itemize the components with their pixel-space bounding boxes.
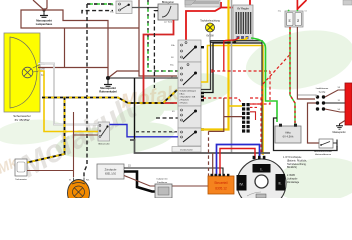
svg-text:Schalterstellungen: Schalterstellungen bbox=[180, 90, 196, 93]
svg-text:Zündschalter: Zündschalter bbox=[180, 149, 193, 152]
regulator 6V Regler bbox=[233, 5, 253, 40]
svg-text:2. BWR: 2. BWR bbox=[287, 175, 295, 177]
svg-text:6V Regler: 6V Regler bbox=[237, 7, 249, 11]
wire red flasher feed bbox=[144, 20, 178, 103]
wire red main feed top bbox=[186, 0, 250, 40]
ground Massepunkt taillight bbox=[333, 121, 346, 135]
svg-text:8305.12: 8305.12 bbox=[215, 187, 227, 191]
ignition coil Zündspule bbox=[97, 164, 131, 179]
wire brown connector left bbox=[209, 98, 224, 131]
svg-text:(Batterie, Rücklicht,: (Batterie, Rücklicht, bbox=[287, 159, 307, 162]
wire brown coil ground bbox=[124, 176, 208, 187]
wire yellow trunk bbox=[201, 0, 229, 130]
svg-text:Blinklicht): Blinklicht) bbox=[287, 166, 297, 169]
wire black thick HT lead bbox=[124, 172, 156, 192]
svg-text:Isolator mit: Isolator mit bbox=[157, 178, 168, 181]
wire brown stub from top bbox=[44, 0, 47, 10]
svg-text:Ladeklemme: Ladeklemme bbox=[316, 88, 329, 90]
wire gray ground to magneto bbox=[130, 140, 270, 153]
svg-text:Rahmenkabel: Rahmenkabel bbox=[99, 90, 117, 94]
wire brown connector feed bbox=[224, 116, 242, 118]
wire brown ground loop left bbox=[21, 10, 139, 28]
wire brown branch node2 bbox=[108, 71, 139, 78]
brake light switch bbox=[314, 139, 333, 156]
flywheel magneto bbox=[237, 156, 287, 208]
battery Akku bbox=[275, 124, 301, 143]
headlamp label bbox=[13, 114, 31, 122]
svg-text:II.: II. bbox=[279, 182, 282, 186]
wire brown dashed to control unit bbox=[208, 131, 210, 176]
wire red regulator down bbox=[224, 37, 239, 71]
wire brown to taillight 58 bbox=[325, 90, 345, 97]
wire brown blinker 31 bbox=[73, 112, 75, 177]
wire yellow regulator branch bbox=[229, 37, 248, 43]
wire yellow-black dashed horn feed bbox=[25, 90, 177, 163]
svg-text:Massepunkt: Massepunkt bbox=[333, 131, 346, 134]
wire red-white dashed right drop bbox=[250, 71, 270, 104]
wire green-red striped to battery bbox=[290, 27, 295, 124]
switch 2 contacts bbox=[181, 64, 198, 86]
wire black coil 15 bbox=[124, 168, 223, 175]
control unit Steuerteil bbox=[208, 174, 234, 194]
wire brown diagonal to ground bbox=[33, 0, 44, 10]
flasher relay Blinkgeber bbox=[158, 0, 178, 24]
wire gray junction feed bbox=[298, 95, 316, 97]
wire black second up-over bbox=[201, 43, 262, 93]
svg-text:Blinkgeber: Blinkgeber bbox=[162, 0, 174, 4]
headlamp bulb bbox=[22, 65, 40, 78]
wire blue magneto to control unit bbox=[217, 145, 260, 177]
wire green regulator to battery bbox=[251, 38, 277, 122]
switch stack housing bbox=[178, 40, 201, 146]
dip switch Abblendschalter bbox=[110, 1, 132, 14]
svg-text:I.: I. bbox=[260, 167, 262, 172]
wire brown center vertical bbox=[139, 0, 177, 76]
svg-text:IV.: IV. bbox=[239, 183, 243, 187]
wire black dashed into stack bbox=[136, 131, 177, 133]
horn switch box bbox=[15, 159, 27, 181]
stack right pin nubs bbox=[201, 46, 204, 131]
svg-text:8351.1/10: 8351.1/10 bbox=[105, 173, 117, 176]
wire gray dip switch to flasher bbox=[132, 7, 158, 9]
wire black lamp feed bbox=[210, 41, 235, 43]
svg-text:Hinterradbremse: Hinterradbremse bbox=[315, 153, 332, 156]
wire brown to frame ground bbox=[44, 10, 108, 78]
wire gray lamp down bbox=[209, 32, 211, 42]
svg-text:1. DYN Lichtspule: 1. DYN Lichtspule bbox=[283, 156, 302, 159]
svg-text:2 Fahrlicht: 2 Fahrlicht bbox=[180, 99, 190, 102]
svg-text:Lampenhaus: Lampenhaus bbox=[36, 22, 53, 26]
svg-text:Tachometer: Tachometer bbox=[15, 178, 27, 181]
wire red handlebar stub bbox=[220, 2, 222, 8]
wire brown magneto to control unit bbox=[212, 153, 214, 176]
switch 3 contacts bbox=[181, 109, 198, 122]
wire yellow 58 branch bbox=[201, 46, 263, 156]
svg-text:Bremslichtschalter: Bremslichtschalter bbox=[314, 150, 332, 153]
watermark blobs bbox=[0, 21, 352, 206]
wire brown taillight lower bbox=[325, 109, 345, 112]
svg-text:6V 4,5Ah: 6V 4,5Ah bbox=[283, 135, 294, 139]
svg-text:Zündanlage: Zündanlage bbox=[287, 182, 300, 184]
svg-text:6-polig: 6-polig bbox=[319, 91, 326, 93]
turn signal switch Blinkerschalter bbox=[98, 122, 110, 146]
wire brown junction to brake switch bbox=[308, 103, 320, 143]
svg-text:6V: 6V bbox=[289, 19, 292, 22]
headlamp housing (yellow box) bbox=[4, 33, 40, 112]
wire black battery minus bbox=[274, 118, 338, 151]
wire black to taillight bbox=[325, 102, 345, 104]
svg-text:6V 35/35W: 6V 35/35W bbox=[15, 118, 30, 122]
legend text right bbox=[283, 156, 307, 184]
svg-text:0 Aus: 0 Aus bbox=[180, 93, 185, 96]
handlebar assembly top bbox=[185, 0, 220, 7]
svg-text:Zündspule: Zündspule bbox=[105, 169, 117, 172]
svg-text:Zündkerze: Zündkerze bbox=[157, 181, 168, 184]
svg-text:1 Standlicht / 31B: 1 Standlicht / 31B bbox=[180, 96, 196, 99]
wire black dashed to stack bbox=[154, 11, 158, 88]
wire green-black dashed mid bbox=[148, 0, 178, 71]
wire black dashed vertical trunk bbox=[84, 4, 87, 178]
wire yellow connector branch bbox=[229, 105, 243, 107]
wire red dashed fuse to connector bbox=[250, 55, 290, 104]
switch 4 contacts bbox=[172, 131, 201, 153]
wire brown fuse to junction bbox=[297, 27, 315, 99]
svg-text:Tachobeleuchtung: Tachobeleuchtung bbox=[200, 20, 220, 23]
wire red-white dashed horizontal bbox=[212, 70, 270, 72]
svg-text:Blinkschalter: Blinkschalter bbox=[98, 143, 110, 146]
connector strip bbox=[242, 103, 250, 133]
fuse holder bbox=[278, 10, 308, 27]
top right connector stub bbox=[343, 0, 352, 5]
stack pin labels bbox=[170, 45, 175, 134]
wire black dashed 56a bbox=[82, 11, 113, 14]
wire red connector stub bbox=[250, 112, 256, 120]
wire brown switch lower pin bbox=[74, 134, 99, 136]
junction connector Ladeklemme bbox=[316, 88, 329, 111]
wire black dashed stub to stack bbox=[156, 117, 178, 119]
wire red-white dashed to magneto bbox=[250, 98, 261, 155]
wire blue switch to stack bbox=[110, 125, 179, 137]
wire gray headlamp to switch bbox=[38, 64, 98, 125]
wire black 58 up-over bbox=[201, 41, 262, 152]
ground brake switch bbox=[333, 140, 337, 147]
wire brown horn box to blinker bbox=[27, 170, 74, 172]
wire gray trunk bbox=[231, 0, 233, 153]
headlamp pin labels bbox=[41, 63, 46, 78]
svg-text:Tachobeleuchtung,: Tachobeleuchtung, bbox=[287, 163, 307, 166]
svg-text:8A: 8A bbox=[297, 19, 300, 22]
speedo lamp Tachobeleuchtung bbox=[200, 20, 220, 38]
svg-text:Steuerteil: Steuerteil bbox=[214, 181, 228, 185]
svg-text:zur Tank: zur Tank bbox=[164, 21, 173, 24]
switch 1 contacts bbox=[181, 42, 198, 60]
wire black from frame ground bbox=[108, 77, 178, 79]
front turn signal lamp bbox=[68, 178, 91, 207]
svg-text:Akku: Akku bbox=[285, 131, 291, 135]
wire red fuse diagonal bbox=[297, 0, 306, 9]
wire yellow headlamp to switch bbox=[38, 71, 98, 132]
taillight (red box) bbox=[338, 83, 352, 125]
svg-text:3 Parken: 3 Parken bbox=[180, 103, 188, 105]
wire black ground branch bbox=[134, 78, 136, 141]
svg-text:Lichtspule: Lichtspule bbox=[287, 177, 298, 180]
ground Massepunkt Lampenhaus bbox=[36, 8, 53, 25]
wire red fuse up bbox=[296, 0, 298, 10]
wire brown headlamp 31 bbox=[38, 28, 108, 68]
wire red-white dashed lower bbox=[203, 98, 242, 104]
switch positions legend bbox=[180, 90, 196, 105]
wire red magneto to control unit bbox=[220, 149, 255, 177]
wire green-black dashed 56b bbox=[87, 3, 113, 5]
wire red dashed connector stub bbox=[250, 106, 258, 108]
ground Massepunkt Rahmen bbox=[99, 76, 117, 94]
spark plug bbox=[155, 178, 172, 199]
